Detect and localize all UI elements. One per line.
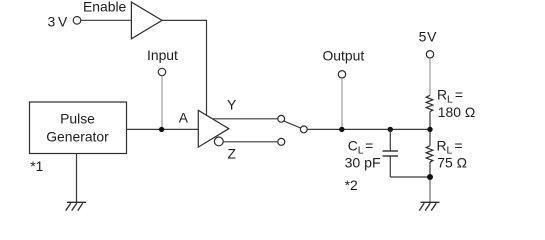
inverting bubble on Z output (214, 137, 223, 146)
svg-text:30 pF: 30 pF (345, 154, 381, 170)
switch pole circle (300, 126, 307, 133)
wire pulse generator to ground (76, 154, 78, 203)
svg-text:A: A (179, 110, 189, 126)
switch terminal circle Y side (278, 115, 285, 122)
buffer U1 enable driver (131, 2, 162, 39)
junction dot capacitor branch (388, 127, 393, 132)
pulse generator box (30, 102, 127, 154)
svg-text:Input: Input (147, 47, 178, 63)
svg-text:Z: Z (228, 145, 237, 161)
svg-text:*1: *1 (30, 158, 43, 174)
svg-text:5V: 5V (419, 28, 438, 44)
wire Y output (213, 118, 278, 120)
wire switch to load node (307, 128, 430, 130)
buffer U2 (198, 110, 229, 147)
terminal circle 3V (73, 17, 81, 25)
wire Z output (223, 141, 278, 143)
svg-text:Generator: Generator (46, 129, 109, 145)
resistor RL 180 (426, 95, 433, 111)
junction dot ground node (427, 174, 433, 180)
wire 3V terminal to enable buffer (81, 19, 131, 21)
svg-text:*2: *2 (345, 177, 358, 193)
ground pulse generator (66, 202, 86, 210)
wire enable buffer output to U2 top (162, 20, 207, 115)
ground load (419, 202, 439, 210)
svg-text:Output: Output (323, 48, 365, 64)
open terminal circle Z side (278, 138, 285, 145)
wire between resistors (429, 112, 431, 146)
junction dot load node (427, 127, 432, 132)
terminal circle 5V (426, 51, 433, 58)
wire output stub gray (341, 78, 343, 129)
wire 5V stub gray (429, 58, 431, 95)
terminal circle Output (338, 71, 345, 78)
wire capacitor bottom to ground node (390, 176, 430, 178)
wire pulse generator to node A (127, 128, 199, 130)
wire 75 ohm to ground node (429, 162, 431, 177)
wire input stub gray (161, 76, 163, 130)
capacitor CL (389, 129, 391, 151)
svg-text:3 V: 3 V (48, 14, 69, 30)
svg-text:Y: Y (227, 97, 236, 113)
switch blade (284, 121, 301, 128)
svg-text:Pulse: Pulse (60, 111, 95, 127)
svg-text:75 Ω: 75 Ω (437, 155, 467, 171)
terminal circle Input (158, 68, 165, 75)
resistor RL 75 (426, 146, 433, 162)
junction dot output (339, 127, 344, 132)
wire ground node to ground symbol (429, 180, 431, 203)
junction dot input node (159, 127, 164, 132)
svg-text:180 Ω: 180 Ω (438, 104, 475, 120)
svg-text:Enable: Enable (83, 0, 127, 15)
